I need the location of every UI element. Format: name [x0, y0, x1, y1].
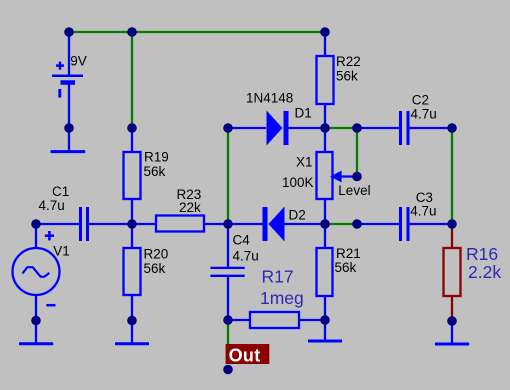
capacitor C3	[357, 207, 452, 241]
svg-text:V1: V1	[53, 244, 70, 259]
svg-text:X1: X1	[296, 155, 313, 170]
wire D2 anode to C3 node	[325, 223, 357, 225]
svg-text:4.7u: 4.7u	[411, 106, 437, 121]
svg-text:D1: D1	[295, 106, 312, 121]
capacitor C4	[211, 224, 245, 320]
junction at Out label pin	[223, 365, 233, 375]
junction C3 left	[352, 219, 362, 229]
source V1	[13, 224, 60, 320]
junction C2 right / R16 branch	[447, 123, 457, 133]
svg-text:56k: 56k	[144, 164, 166, 179]
node D1 cathode / R22 / X1 top	[320, 123, 330, 133]
ground at V1	[19, 320, 53, 344]
junction supply rail / R19 branch	[127, 27, 137, 37]
ground at R20	[115, 320, 149, 344]
ground at battery	[51, 128, 86, 152]
resistor R16	[444, 224, 461, 321]
svg-text:4.7u: 4.7u	[233, 248, 259, 263]
junction R16 bottom / ground	[447, 316, 457, 326]
resistor R22	[317, 32, 334, 128]
junction R19 top	[127, 123, 137, 133]
ground at R21	[308, 320, 342, 341]
svg-text:56k: 56k	[336, 69, 358, 84]
svg-text:22k: 22k	[179, 200, 201, 215]
svg-text:C4: C4	[233, 232, 251, 247]
capacitor C2	[357, 111, 452, 145]
resistor R20	[124, 224, 141, 320]
wire C2 node down to wiper	[356, 128, 358, 177]
svg-text:4.7u: 4.7u	[410, 203, 436, 218]
node D1 anode	[223, 123, 233, 133]
node X1 wiper	[352, 172, 362, 182]
junction R20 bottom / ground	[127, 316, 137, 326]
svg-text:R22: R22	[336, 54, 361, 69]
svg-text:1N4148: 1N4148	[246, 90, 293, 105]
junction R17 right / R21 bottom / ground	[320, 315, 330, 325]
svg-text:1meg: 1meg	[260, 288, 304, 308]
junction D2 anode / X1 bottom / R21 top	[320, 219, 330, 229]
resistor R19	[124, 128, 141, 224]
svg-text:100K: 100K	[282, 175, 314, 190]
junction battery minus / ground	[64, 123, 74, 133]
capacitor C1	[36, 207, 132, 241]
svg-text:R17: R17	[262, 267, 294, 287]
svg-text:56k: 56k	[144, 261, 166, 276]
wire top rail	[69, 31, 325, 33]
resistor R23	[132, 216, 228, 232]
wire C2 right down to C3 right	[451, 128, 453, 224]
svg-text:R19: R19	[144, 150, 169, 165]
junction V1 minus / ground	[31, 316, 41, 326]
junction battery top / supply rail	[64, 27, 74, 37]
potentiometer X1	[317, 128, 358, 224]
svg-text:R20: R20	[144, 247, 169, 262]
junction C3 right / R16 top	[447, 219, 457, 229]
svg-text:4.7u: 4.7u	[39, 198, 65, 213]
svg-text:2.2k: 2.2k	[468, 262, 501, 282]
ground at R16	[435, 321, 469, 344]
svg-text:56k: 56k	[335, 260, 357, 275]
junction R23 right / D2 cathode / C4 top	[223, 219, 233, 229]
svg-text:9V: 9V	[70, 53, 87, 68]
junction wiper wire / C2 left	[352, 123, 362, 133]
wire D1 anode down to D2 row	[227, 128, 229, 224]
wire vertical from top rail to R19	[131, 32, 133, 128]
resistor R21	[317, 224, 333, 320]
svg-text:D2: D2	[289, 208, 306, 223]
diode D2	[228, 207, 325, 242]
junction V1 plus / C1 left	[31, 219, 41, 229]
battery 9V	[52, 32, 83, 128]
svg-text:Level: Level	[338, 183, 370, 198]
node Out / C4 bottom / R17 left	[223, 315, 233, 325]
node Out	[226, 344, 270, 365]
junction supply rail / R22 top	[320, 27, 330, 37]
wire D1 cathode to C2 node	[325, 127, 357, 129]
junction R19 bottom / R20 top / C1 right / R23 left	[127, 219, 137, 229]
resistor R17	[228, 312, 325, 328]
diode D1	[228, 111, 325, 146]
wire Out node down to Out label	[227, 320, 229, 345]
svg-text:Out: Out	[229, 345, 261, 365]
